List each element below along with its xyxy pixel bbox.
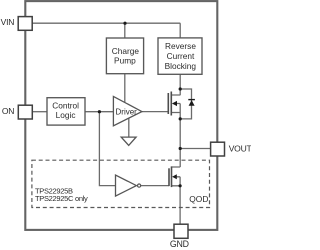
wire charge-pump to driver xyxy=(124,74,126,103)
svg-text:Charge: Charge xyxy=(112,46,140,56)
wire body-diode loop xyxy=(180,89,191,119)
pin box GND xyxy=(174,224,188,238)
wire reverse-block to Q1 drain xyxy=(171,74,180,95)
wire inverter output to Q2 gate xyxy=(141,185,169,187)
svg-text:Blocking: Blocking xyxy=(165,61,197,71)
control logic block xyxy=(47,98,85,125)
svg-text:GND: GND xyxy=(170,239,189,249)
pin box VIN xyxy=(18,17,32,31)
wire ON branch to QOD inverter xyxy=(99,112,115,186)
pin box VOUT xyxy=(211,142,225,156)
charge pump block xyxy=(106,38,143,74)
svg-text:Pump: Pump xyxy=(114,56,136,66)
driver buffer U1 xyxy=(113,96,141,125)
Q2 body arrow xyxy=(172,174,177,179)
dashed TPS22925B/C region xyxy=(32,160,210,207)
wire Q2 body/source to GND xyxy=(172,177,181,224)
node Q1 drain junction xyxy=(179,87,182,90)
wire charge-pump drop xyxy=(124,23,126,38)
svg-text:Logic: Logic xyxy=(56,110,76,120)
node Q2 source junction xyxy=(179,184,182,187)
analog ground symbol xyxy=(121,137,136,145)
body diode cathode bar xyxy=(188,99,195,101)
reverse current blocking block xyxy=(158,38,202,74)
wire Q1 source/body rail to QOD drain xyxy=(171,104,180,168)
svg-text:TPS22925C only: TPS22925C only xyxy=(35,194,88,203)
wire ON to control logic xyxy=(32,111,47,113)
svg-text:Driver: Driver xyxy=(116,107,138,116)
IC boundary xyxy=(25,1,217,230)
svg-text:Reverse: Reverse xyxy=(165,41,196,51)
wire driver output to Q1 gate xyxy=(142,111,168,113)
node Q1 source junction xyxy=(179,117,182,120)
body diode D1 xyxy=(189,100,195,106)
Q1 body arrow xyxy=(172,101,177,106)
svg-text:QOD: QOD xyxy=(189,194,208,204)
svg-text:ON: ON xyxy=(2,106,14,116)
svg-text:VOUT: VOUT xyxy=(229,144,251,154)
wire driver ground drop xyxy=(128,118,130,137)
wire control logic to driver xyxy=(85,111,113,113)
pin box ON xyxy=(18,105,32,119)
wire VIN rail xyxy=(32,22,180,24)
node VOUT junction xyxy=(179,147,182,150)
wire to VOUT xyxy=(180,148,210,150)
inverter bubble xyxy=(138,184,141,187)
svg-text:VIN: VIN xyxy=(1,17,15,27)
node ON branch junction xyxy=(98,110,101,113)
transistor Q1 channel bar xyxy=(170,92,172,116)
transistor Q2 gate bar xyxy=(168,168,170,186)
wire reverse-block drop xyxy=(179,23,181,38)
transistor Q1 gate bar xyxy=(167,93,169,114)
QOD inverter U2 xyxy=(116,175,137,196)
transistor Q2 channel bar xyxy=(171,166,173,187)
svg-text:Current: Current xyxy=(167,51,195,61)
node VIN/charge-pump junction xyxy=(123,22,126,25)
